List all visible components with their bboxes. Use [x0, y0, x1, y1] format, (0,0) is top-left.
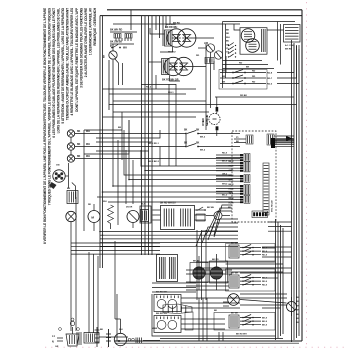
perforation dots right: [306, 2, 308, 348]
power cord connector: [84, 333, 99, 344]
wires bottom mid: [181, 297, 240, 299]
svg-text:8 VERIFIER LE BON FONCTIONNEM: 8 VERIFIER LE BON FONCTIONNEMENT DE L'AP…: [43, 8, 47, 244]
left mid labels: [88, 201, 107, 206]
svg-text:TENSIONS DU CIRCUIT AMBRE-JAUN: TENSIONS DU CIRCUIT AMBRE-JAUNE : VEUILL…: [66, 8, 70, 120]
mid-right horizontals y282-292: [186, 281, 229, 283]
svg-text:RD-8: RD-8: [229, 202, 235, 204]
bundle y186-202: [113, 132, 232, 186]
wire rows y60-68: [223, 60, 263, 62]
switch block labels: [156, 292, 168, 316]
svg-text:OVEN: OVEN: [201, 118, 205, 126]
wire y104 right: [109, 104, 297, 106]
latch motor: [66, 211, 76, 221]
svg-text:BK: BK: [77, 131, 81, 133]
svg-text:REMARQUE : DEBRANCH: REMARQUE : DEBRANCH: [93, 7, 97, 46]
svg-text:BK RD: BK RD: [173, 23, 180, 25]
heating resistor zigzag: [108, 205, 114, 224]
bake element hatched: [67, 191, 78, 204]
bottom blower motor: [114, 319, 160, 346]
rows between B and C right: [240, 293, 287, 295]
oven door switch contact 2: [184, 143, 240, 152]
relay label column: [226, 30, 230, 54]
svg-text:RD-8: RD-8: [262, 281, 268, 283]
svg-text:BK: BK: [77, 144, 81, 146]
trunk x102.5: [102, 16, 104, 268]
svg-text:GR: GR: [55, 346, 59, 348]
svg-text:BK: BK: [184, 130, 188, 132]
svg-text:BK: BK: [67, 188, 71, 190]
indicator lamp 3: [67, 155, 96, 162]
svg-text:WH-2: WH-2: [222, 183, 228, 185]
board connector P1 (top-left): [234, 135, 253, 144]
svg-text:7 RISQUES DANS LE FONCTIONNEM: 7 RISQUES DANS LE FONCTIONNEMENT DE L'AP…: [47, 8, 51, 205]
right switch row A: [229, 243, 268, 259]
wire y24 top: [113, 23, 240, 25]
contact row feeders: [277, 45, 294, 73]
svg-text:WH: WH: [119, 329, 123, 331]
wire x226 y56-72: [225, 56, 227, 73]
svg-text:WH BU: WH BU: [168, 52, 176, 54]
element upper leads: [150, 28, 165, 34]
svg-text:WH: WH: [86, 156, 90, 158]
board bottom connector: [252, 211, 268, 218]
element hatched block upper: [165, 30, 173, 46]
row A enclosing box: [226, 244, 276, 262]
wire x76 down: [75, 197, 77, 331]
wire below elements: [155, 75, 157, 89]
svg-text:BK RD: BK RD: [285, 49, 292, 51]
svg-text:RD: RD: [239, 63, 243, 65]
misc vertical x186 mid: [185, 134, 187, 147]
svg-text:BK-8: BK-8: [262, 318, 268, 320]
oven temperature sensor: [201, 97, 220, 136]
wire x84 mid: [83, 130, 85, 231]
svg-text:BK: BK: [222, 76, 226, 78]
svg-text:RD: RD: [252, 70, 256, 72]
svg-text:WH: WH: [226, 37, 230, 39]
bundle y231-246: [100, 231, 238, 233]
svg-text:RD BK: RD BK: [240, 95, 247, 97]
oven relay contact rows: [220, 70, 273, 86]
svg-text:BK: BK: [100, 329, 104, 331]
svg-text:180: 180: [56, 165, 60, 167]
bundle x156-163 top: [155, 16, 157, 30]
svg-text:GY: GY: [226, 52, 230, 54]
trunk x113: [112, 60, 114, 132]
mid horizontals y262-274: [196, 261, 276, 263]
svg-text:BK-8: BK-8: [222, 160, 228, 162]
wires y89-94 left: [103, 88, 197, 90]
svg-text:RD: RD: [252, 76, 256, 78]
door heater hatched: [141, 210, 149, 222]
verticals x222-225 right top: [222, 22, 224, 89]
perforation dots bottom: [45, 346, 345, 348]
bottom-left extra terminal marks: [59, 328, 62, 331]
bottom lines y337-341: [160, 338, 283, 340]
right edge label column: [296, 297, 299, 324]
svg-text:WH: WH: [103, 201, 107, 203]
svg-text:N: N: [52, 341, 54, 344]
cluster interconnects top right: [234, 24, 240, 30]
row C side box: [185, 312, 193, 330]
misc vertical x169 down: [168, 84, 170, 166]
frame top line 2: [100, 15, 302, 17]
right switch row C: [229, 313, 268, 329]
svg-text:2 AU SECTEUR AVANT D'ENLEVER: 2 AU SECTEUR AVANT D'ENLEVER LE COUVRE: [84, 8, 88, 77]
wire y21.5 top right: [223, 21, 296, 23]
svg-text:BK-8: BK-8: [262, 321, 268, 323]
svg-text:WH: WH: [86, 144, 90, 146]
fanout control to left: [214, 219, 238, 237]
svg-text:BK WH: BK WH: [231, 273, 239, 275]
box outline bottom mid: [152, 294, 196, 336]
harness label column right: [229, 161, 235, 204]
right rows feeders: [262, 247, 276, 249]
oven cavity lamp: [50, 163, 76, 199]
svg-text:SENSOR: SENSOR: [205, 115, 209, 126]
svg-text:BK RD WH: BK RD WH: [156, 313, 168, 315]
element lower leads: [149, 61, 162, 63]
svg-text:BK RD WH: BK RD WH: [236, 334, 247, 336]
right switch row B: [229, 273, 268, 289]
vertical x131: [130, 10, 132, 30]
bundle x141-152 top: [141, 16, 143, 255]
fuse symbol: [108, 329, 110, 347]
svg-text:1 DEBRANCHER L'APPAREIL AV: 1 DEBRANCHER L'APPAREIL AV: [88, 7, 92, 55]
right edge fan symbol: [287, 302, 297, 312]
bundle y166-180 nested corners: [141, 150, 232, 166]
svg-text:WH: WH: [123, 48, 127, 50]
bottom verticals mid-right: [198, 298, 200, 341]
svg-text:BK: BK: [196, 143, 200, 145]
bundle y242-254 left: [71, 242, 160, 244]
right bundle upper x291-301: [291, 40, 293, 342]
left contact stack: [228, 45, 229, 46]
terminal block: [66, 334, 79, 346]
svg-text:BK-8: BK-8: [229, 161, 235, 163]
svg-text:BK: BK: [104, 54, 106, 58]
svg-text:BK RD WH: BK RD WH: [165, 26, 177, 29]
svg-text:DONT L'APPAREIL EST EQUIPE. RE: DONT L'APPAREIL EST EQUIPE. REMETTRE LE …: [75, 7, 79, 112]
element hatched block lower: [162, 59, 170, 75]
nested wires left-mid: [96, 133, 186, 135]
transformer double coil: [161, 206, 195, 230]
svg-text:BK-8: BK-8: [229, 198, 235, 200]
igniter 2 (dark disk): [210, 259, 228, 283]
svg-text:BK: BK: [222, 81, 226, 83]
svg-text:RD-6: RD-6: [267, 84, 273, 86]
verticals x197-206 lower: [196, 230, 198, 300]
svg-text:BK-8: BK-8: [262, 325, 268, 327]
misc vertical x176 down: [175, 89, 177, 166]
svg-text:M BK: M BK: [152, 328, 158, 330]
transformer T2: [157, 255, 178, 282]
labels below element lower: [162, 79, 179, 82]
svg-text:RD: RD: [88, 204, 92, 206]
relay box K1: [140, 206, 151, 223]
svg-text:BK-2 BK-2: BK-2 BK-2: [148, 161, 160, 163]
igniter crossing wires: [186, 269, 232, 271]
svg-text:DOOR: DOOR: [126, 207, 133, 209]
broil-bake relay block: [240, 28, 267, 55]
svg-text:BK: BK: [222, 70, 226, 72]
electronic range control board (dashed): [232, 131, 276, 222]
svg-text:RD: RD: [252, 81, 256, 83]
svg-text:BK RD WH BU: BK RD WH BU: [160, 203, 176, 205]
svg-text:ERC RELAY: ERC RELAY: [271, 200, 274, 212]
supply labels: [52, 335, 59, 348]
svg-text:BK WH RD: BK WH RD: [110, 29, 122, 32]
ground marks left: [96, 327, 98, 347]
bottom selector switch A: [154, 295, 181, 312]
wire label top mid: [146, 87, 174, 95]
labels above element upper: [165, 24, 177, 29]
svg-text:RD-8: RD-8: [229, 189, 235, 191]
svg-text:RD-2: RD-2: [146, 87, 152, 89]
bottom lines 2: [99, 336, 128, 338]
wires bottom mid 2: [181, 318, 225, 320]
svg-text:RD-8: RD-8: [262, 255, 268, 257]
wires y112-118 left: [113, 111, 209, 113]
svg-text:BK: BK: [214, 310, 218, 312]
left-mid verticals x118-133: [117, 140, 119, 225]
svg-text:BU: BU: [226, 41, 230, 43]
control board right connector: [271, 138, 275, 148]
trunk x100: [99, 16, 101, 268]
wire x71 down: [70, 229, 72, 331]
frame top line 1: [107, 9, 302, 11]
frame right border: [301, 10, 303, 341]
harness funnel shape: [163, 304, 192, 314]
wire y97 right: [215, 96, 294, 98]
svg-text:BK: BK: [77, 156, 81, 158]
wire y84 mid: [141, 84, 176, 86]
clock-timer module right edge: [267, 25, 300, 51]
vertical x117 bottom: [116, 294, 118, 341]
svg-text:RD-8: RD-8: [222, 152, 228, 154]
upper mid labels: [118, 127, 160, 163]
igniter 1 (dark disk): [190, 261, 208, 283]
svg-text:RD-1 RD-1: RD-1 RD-1: [148, 143, 160, 145]
svg-text:4 REMETTRE LE BLINDAGE AVEC L: 4 REMETTRE LE BLINDAGE AVEC L'APPAREIL. …: [70, 8, 74, 116]
funnel hatch: [167, 306, 169, 313]
label marks top elements: [168, 23, 200, 58]
indicator lamp 2: [67, 143, 96, 156]
board relay bar (vertical hatched): [263, 163, 274, 215]
svg-text:6 LES PROBLEMES DE CABLAGE PE: 6 LES PROBLEMES DE CABLAGE PEUVENT ENTRA…: [52, 8, 56, 138]
wire x210 down: [210, 52, 212, 108]
board left connector groups: [216, 152, 250, 203]
row B enclosing box: [226, 269, 276, 291]
svg-text:BK-2: BK-2: [200, 137, 206, 139]
svg-text:RD-8: RD-8: [267, 73, 273, 75]
mid-right horizontals y302-310: [223, 301, 229, 303]
row C bottom labels: [214, 310, 247, 336]
board connector P2 to right bundle: [267, 134, 274, 145]
row B extra components right: [196, 209, 198, 211]
bottom selector switch B: [154, 316, 181, 333]
bottom pilot lamp: [228, 294, 240, 306]
svg-text:BK: BK: [118, 127, 122, 129]
door switch cluster: [110, 29, 137, 50]
svg-text:WH: WH: [86, 131, 90, 133]
rows between A and B right: [226, 263, 284, 265]
right short horizontals y222-280: [268, 221, 292, 223]
surface element pair lower: [164, 57, 182, 75]
transformer leads: [153, 209, 161, 211]
svg-text:RLY: RLY: [141, 204, 146, 206]
oven lamp P: [104, 44, 123, 85]
svg-text:BK WH: BK WH: [231, 313, 239, 315]
svg-text:BK WH: BK WH: [207, 207, 215, 209]
contact rows enclosing box: [219, 70, 267, 90]
bottom mid labels: [100, 328, 158, 331]
supply stubs: [57, 337, 63, 339]
wires x89-98 down: [88, 252, 90, 333]
svg-text:RD-8: RD-8: [262, 285, 268, 287]
right bundle lower x275-283: [275, 219, 277, 340]
labels above transformer: [160, 203, 176, 205]
igniter leads: [198, 279, 200, 290]
notes text block (French service remarks, rotated 90): [43, 7, 97, 244]
svg-text:5 ATTENTION : AVANT DE REBRAN: 5 ATTENTION : AVANT DE REBRANCHER L'APPA…: [61, 7, 65, 123]
svg-text:BK: BK: [246, 67, 250, 69]
svg-text:WH-1: WH-1: [168, 92, 174, 94]
indicator lamp 1: [67, 130, 96, 143]
surface element pair upper: [167, 29, 185, 47]
svg-text:BK-2: BK-2: [200, 150, 206, 152]
convection motor: [88, 204, 100, 231]
svg-text:L1: L1: [52, 335, 55, 338]
small junction dots: [141, 165, 143, 167]
trunk x109: [108, 60, 110, 110]
svg-text:BU-2: BU-2: [222, 194, 228, 196]
wire x206 down: [205, 44, 207, 130]
svg-text:3 SE REFERER AUX SCHEMAS POUR: 3 SE REFERER AUX SCHEMAS POUR LES FONCTI…: [79, 8, 83, 88]
fanout from board bottom-left: [214, 205, 232, 235]
wire to right edge circle: [240, 300, 287, 304]
svg-text:BK: BK: [196, 130, 200, 132]
svg-text:RD: RD: [226, 33, 230, 35]
svg-text:BK: BK: [226, 30, 230, 32]
svg-text:M: M: [91, 216, 94, 220]
svg-text:RD: RD: [196, 55, 200, 57]
svg-text:LORS DE LA REPARATION DE REBRA: LORS DE LA REPARATION DE REBRANCHER L'AP…: [57, 8, 61, 134]
center horizontals y282-292: [152, 282, 196, 284]
oven door switch contact 1: [184, 130, 240, 139]
svg-text:BK RD: BK RD: [212, 259, 219, 261]
row C enclosing box: [214, 313, 275, 331]
door motor: [126, 207, 139, 229]
svg-text:RD-7: RD-7: [267, 78, 273, 80]
top-center verticals x166-171: [165, 16, 167, 28]
surface limiter cluster: [198, 43, 223, 70]
svg-text:A-1 CLK: A-1 CLK: [285, 44, 294, 47]
wire x115 route: [114, 241, 116, 319]
frame bottom line: [115, 340, 302, 342]
